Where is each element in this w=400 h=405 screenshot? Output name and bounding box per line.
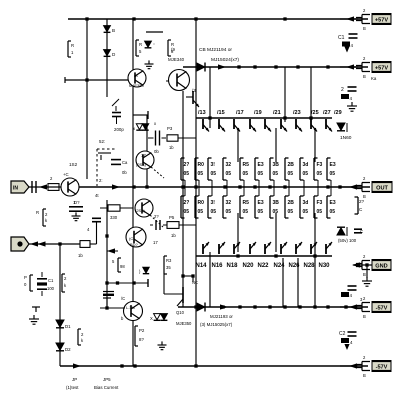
svg-text:-57V: -57V [376,364,388,370]
capacitor C9 [155,131,157,146]
svg-text:3d: 3d [303,200,309,206]
svg-text:+57V: +57V [375,17,388,23]
wire collector feed x210 [209,67,211,128]
svg-text:L.3M: L.3M [126,305,135,310]
capacitor 200p [112,99,119,106]
svg-text:B: B [363,373,366,378]
svg-text:/17: /17 [236,110,244,116]
svg-text:52:: 52: [99,139,105,144]
svg-text:Ca: Ca [122,160,128,165]
svg-text:N18: N18 [227,263,239,269]
svg-text:Q10: Q10 [176,310,185,315]
junction dots base rail 2 [236,254,239,257]
svg-text:N24: N24 [274,263,286,269]
wire vertical x196 spine [195,19,197,366]
svg-text:3B: 3B [273,162,280,168]
wire gnd stub [366,265,368,278]
thermal dashed from Q3 [150,215,163,227]
tee mark x107 [103,297,111,299]
junction dots upper +V rail [237,65,240,68]
ground center bottom [161,341,163,345]
wire emitter feed x238 lower [237,213,239,252]
resistor R23 upper emitter [239,158,241,180]
svg-text:05: 05 [211,209,217,215]
capacitor C12 series [92,217,101,219]
svg-text:3!: 3! [211,162,216,168]
svg-text:/19: /19 [254,110,262,116]
resistor R26 upper emitter [284,158,286,180]
resistor R39 lower emitter [299,196,301,218]
resistor R31 lower emitter [180,196,182,218]
connector J4 GND [353,264,372,266]
svg-text:/21: /21 [273,110,281,116]
resistor bracket right of lower row [357,197,359,214]
wire emitter feed x238 [237,128,239,162]
transistor Q6 [136,151,154,169]
svg-text:05: 05 [330,171,336,177]
svg-text:/15: /15 [217,110,225,116]
arrow output rail left [112,184,120,189]
svg-text:::: :: [153,41,155,46]
wire collector feed x311 [310,67,312,122]
wire q4 base [100,307,125,309]
wire emitter feed x276 lower [275,213,277,252]
svg-text:05: 05 [273,209,279,215]
svg-text:2:: 2: [99,178,103,183]
svg-text:200p: 200p [114,127,124,132]
svg-text:N20: N20 [243,263,255,269]
resistor R6 [167,40,169,56]
transistor Q1 [61,178,79,196]
svg-text:E3: E3 [330,200,336,206]
svg-text:05: 05 [243,209,249,215]
wire lower mid -V rail to connector [178,306,368,308]
svg-text:R: R [36,210,39,215]
resistor R38 lower emitter [284,196,286,218]
resistor R7 feedback [29,275,31,291]
svg-text:(2Sa): (2Sa) [135,208,145,213]
resistor R11 330 [108,205,120,211]
resistor R29 upper emitter [326,158,328,180]
svg-text:3!: 3! [211,200,216,206]
wire emitter feed x276 [275,128,277,162]
resistor R20 upper emitter [194,158,196,180]
svg-text:N16: N16 [212,263,224,269]
svg-text:05: 05 [303,209,309,215]
connector NFB [11,237,29,251]
svg-text:JP5: JP5 [103,377,111,382]
svg-text:+57V: +57V [375,65,388,71]
wire bottom -V rail [60,365,368,367]
capacitor C8 feedback [37,278,47,280]
wire top +V rail [68,18,368,20]
capacitor C10 mid [155,220,157,230]
junction dot NFB [58,242,61,245]
ground lower left [33,315,35,319]
connector J5 -57V [340,306,358,308]
resistor R4 top left [67,41,69,57]
connector J1 +57V [340,18,358,20]
svg-text:1S2: 1S2 [69,162,78,167]
svg-text:P3: P3 [167,126,173,131]
svg-text:05: 05 [243,171,249,177]
svg-text:3B: 3B [273,200,280,206]
svg-text:05: 05 [258,209,264,215]
svg-text:C2: C2 [339,331,346,337]
svg-text:35: 35 [166,265,171,270]
svg-text:F3: F3 [317,162,323,168]
resistor R24 upper emitter [254,158,256,180]
svg-text:N30: N30 [319,263,331,269]
junction dots base rail 1 [208,116,211,119]
diode D12 lower with cap [337,228,345,235]
svg-text:05: 05 [317,171,323,177]
svg-text:R5: R5 [243,200,250,206]
svg-text:-57V: -57V [376,305,388,311]
svg-text:IN: IN [13,186,18,192]
transistor Q10 driver lower [163,274,165,294]
svg-text:E3: E3 [258,200,264,206]
svg-text:2B: 2B [288,162,295,168]
ground center top [148,60,150,64]
svg-text:/C: /C [121,296,125,301]
junction dots output rail [132,185,135,188]
svg-text:32: 32 [226,200,232,206]
svg-text:P2: P2 [139,328,145,333]
svg-text:E3: E3 [330,162,336,168]
svg-text:2?: 2? [154,214,159,219]
diode D1 [56,320,64,327]
svg-text:05: 05 [273,171,279,177]
svg-text:MJE350: MJE350 [129,83,144,88]
junction dots bottom rail [120,364,123,367]
wire input feed [26,186,62,188]
svg-text:2B: 2B [288,200,295,206]
svg-text:2?: 2? [184,200,190,206]
wire vertical x60 lower bias chain [59,244,61,366]
svg-text:/3: /3 [192,88,196,93]
ground below C6 [75,212,77,216]
svg-text:05: 05 [288,209,294,215]
svg-text:/29: /29 [334,110,342,116]
diode D4 [104,50,111,56]
wire tee y115 [133,114,148,116]
diode D11 1N60 upper [337,123,345,130]
svg-text:CB MJ21194 or: CB MJ21194 or [199,47,232,53]
svg-text:/23: /23 [293,110,301,116]
resistor R9 bias [77,329,79,345]
svg-text:05: 05 [317,209,323,215]
svg-text:F3: F3 [317,200,323,206]
ground right mid [366,277,368,281]
capacitor Ca electrolytic [111,159,121,161]
thermal dashed from Q6 [151,167,164,178]
wire vertical x147 [146,115,148,187]
svg-text:P5: P5 [169,215,175,220]
svg-text:B: B [112,28,115,33]
connector IN [11,181,29,193]
svg-text:05: 05 [198,209,204,215]
wire lower base drive rail [196,255,332,257]
inline diode upper rail [197,63,205,71]
dashed select box [97,149,116,186]
svg-text:R0: R0 [198,162,205,168]
input capacitor C5 [31,181,33,193]
resistor R35 lower emitter [239,196,241,218]
svg-text:GND: GND [375,263,387,269]
svg-text:330: 330 [110,215,118,220]
diode D2 [56,343,64,350]
arrow upper +V rail [218,64,226,69]
resistor R36 lower emitter [254,196,256,218]
NFB series resistor R2 [80,241,90,248]
transistor Q5 [128,69,146,87]
terminal mark [32,306,40,308]
svg-text:(2Sa): (2Sa) [136,162,146,167]
svg-text:0b: 0b [122,170,127,175]
resistor R15 P2 [134,326,136,346]
wire vertical x87 [86,19,88,179]
wire vertical x183 driver emitter chain [182,91,184,307]
svg-text:R5: R5 [243,162,250,168]
resistor R40 lower emitter [313,196,315,218]
wire collector feed x283 lower [282,258,284,307]
inline diode lower rail [197,303,205,311]
svg-text:(50v) 100: (50v) 100 [338,238,357,243]
svg-text:100: 100 [47,286,55,291]
wire collector feed x298 lower [297,258,299,307]
svg-text:1N60: 1N60 [340,135,352,141]
resistor R14 vert [163,256,165,274]
arrow output rail right [349,184,357,189]
svg-text:C1: C1 [48,278,54,283]
resistor R27 upper emitter [299,158,301,180]
capacitor C3 right lower [348,285,357,287]
svg-text:/13: /13 [198,110,206,116]
svg-text:1b: 1b [169,145,174,150]
svg-text:N22: N22 [258,263,270,269]
svg-text:/27: /27 [323,110,331,116]
svg-text:R: R [139,42,142,47]
diode D7 [143,267,149,273]
svg-text:1b: 1b [171,233,176,238]
transistor Q3 bias [135,199,153,217]
wire output rail [79,186,370,188]
svg-text:N14: N14 [196,263,208,269]
svg-text:P: P [24,275,27,280]
svg-text:N28: N28 [304,263,316,269]
svg-text:R: R [71,43,74,48]
diode D8 pair mid [154,314,161,320]
svg-text:B: B [363,314,366,319]
ground below C2 [351,102,353,106]
svg-text:C1: C1 [338,35,345,41]
svg-text:Bias Current: Bias Current [94,385,119,390]
resistor R22 upper emitter [222,158,224,180]
resistor R25 upper emitter [269,158,271,180]
wire upper base drive rail [196,117,332,119]
connector J6 -57V [340,365,358,367]
capacitor C11 lower left [103,291,114,293]
wire Q5 base line [65,79,130,81]
svg-text:B: B [363,272,366,277]
arrow lower rail right [220,304,228,309]
svg-text:MJE350: MJE350 [176,321,192,326]
svg-text:2?: 2? [184,162,190,168]
resistor R10 to base rail [167,135,178,141]
wire emitter feed x315 lower [314,213,316,252]
resistor R34 lower emitter [222,196,224,218]
svg-text:17: 17 [141,153,146,158]
svg-text:(C: (C [129,236,133,241]
resistor R21 upper emitter [207,158,209,180]
svg-text:05: 05 [198,171,204,177]
transistor Q9 driver [169,70,190,91]
svg-text:JP: JP [72,377,77,382]
svg-text:0b: 0b [154,149,159,154]
svg-text:3d: 3d [303,162,309,168]
resistor R33 lower emitter [207,196,209,218]
svg-text:MJ21193 or: MJ21193 or [210,314,233,319]
svg-text:05: 05 [211,171,217,177]
svg-text:X: X [150,316,153,321]
diode D3 [104,26,111,32]
svg-text:32: 32 [226,162,232,168]
resistor R37 lower emitter [269,196,271,218]
wire vertical x107 lower [106,200,108,308]
wire bias cluster top [146,31,163,33]
wire collector feed x210 lower [209,252,211,307]
svg-text:D2: D2 [65,347,71,352]
wire emitter feed x315 [314,128,316,162]
svg-text:05: 05 [258,171,264,177]
svg-text:MJ15024(x7): MJ15024(x7) [211,57,239,63]
svg-text:2?: 2? [359,199,365,204]
svg-text:05: 05 [226,171,232,177]
connector J3 OUT [340,186,358,188]
input resistor R1 [48,184,59,191]
svg-text:MJE340: MJE340 [168,57,185,62]
arrow into x107 [107,248,115,253]
resistor R5 [135,40,137,56]
junction dot x87 base line [85,78,88,81]
svg-text:(9: (9 [171,47,175,52]
svg-text:R0: R0 [198,200,205,206]
connector J2 +57V [340,66,358,68]
resistor R32 lower emitter [194,196,196,218]
resistor R8 to ground [61,274,63,292]
svg-text:Ka: Ka [371,76,377,81]
svg-text:B: B [363,26,366,31]
svg-text:2: 2 [341,87,344,93]
svg-text:BD?: BD? [130,242,139,247]
svg-text:05: 05 [226,209,232,215]
zener diode D5 [145,41,152,47]
svg-text:05: 05 [330,209,336,215]
svg-text:8?: 8? [139,337,144,342]
junction dot x107 [105,234,108,237]
wire collector feed x285 [284,67,286,122]
svg-text:NC: NC [192,280,198,285]
svg-text:N26: N26 [289,263,301,269]
transistor Q4 [124,302,143,321]
svg-text:E3: E3 [258,162,264,168]
svg-text:05: 05 [303,171,309,177]
resistor R3 left [42,209,44,226]
wire upper mid +V rail to connector [183,66,368,68]
wire vertical x133 main spine [132,19,134,366]
resistor R19 upper emitter [180,158,182,180]
svg-text:+C: +C [63,172,69,177]
svg-text:05: 05 [184,171,190,177]
resistor R41 lower emitter [326,196,328,218]
junction dots lower -V rail [194,305,197,308]
resistor R12 [117,258,119,272]
svg-text:98: 98 [120,264,125,269]
svg-text:05: 05 [184,209,190,215]
svg-text:(3) MJ15025(x7): (3) MJ15025(x7) [200,322,233,327]
svg-text:05: 05 [288,171,294,177]
svg-text:OUT: OUT [376,185,388,191]
arrow bottom rail [73,363,81,368]
svg-text:1b: 1b [78,253,83,258]
wire NFB feed [26,243,80,245]
transistor Q11 pre-driver upper [186,96,193,98]
resistor R28 upper emitter [313,158,315,180]
arrows NFB line [30,241,38,246]
svg-text:17: 17 [153,240,158,245]
svg-text:R3: R3 [166,258,172,263]
arrow lower -V rail [349,304,357,309]
svg-text:D1: D1 [65,324,71,329]
svg-text:B: B [363,74,366,79]
wire lower mid [107,282,148,284]
arrow after input cap [39,184,47,189]
resistor R13 [167,222,179,229]
svg-text:(1)test: (1)test [66,385,79,390]
transistor Q7 [126,227,146,247]
wire collector feed x315 lower [314,252,316,307]
svg-text:/25: /25 [311,110,319,116]
junction dots top rail [85,17,88,20]
wire vertical x107 upper [106,19,108,97]
